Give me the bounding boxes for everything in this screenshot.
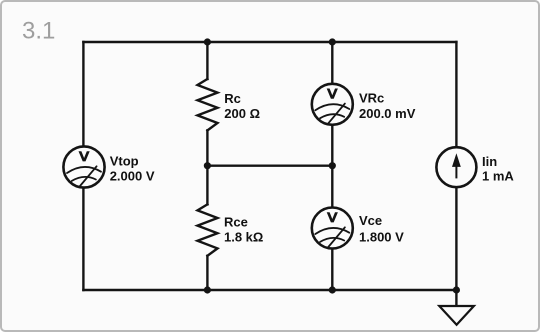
svg-text:Rc: Rc: [224, 91, 241, 106]
svg-text:VRc: VRc: [359, 90, 384, 105]
svg-text:200 Ω: 200 Ω: [224, 106, 260, 121]
svg-text:200.0 mV: 200.0 mV: [359, 106, 416, 121]
svg-text:Vce: Vce: [359, 213, 382, 228]
svg-text:1.8 kΩ: 1.8 kΩ: [224, 230, 263, 245]
svg-text:Vtop: Vtop: [110, 153, 139, 168]
svg-text:3.1: 3.1: [22, 18, 55, 45]
svg-text:1.800 V: 1.800 V: [359, 230, 404, 245]
svg-text:Rce: Rce: [224, 215, 248, 230]
svg-text:1 mA: 1 mA: [482, 168, 514, 183]
svg-text:2.000 V: 2.000 V: [110, 169, 155, 184]
svg-text:Iin: Iin: [482, 154, 497, 169]
